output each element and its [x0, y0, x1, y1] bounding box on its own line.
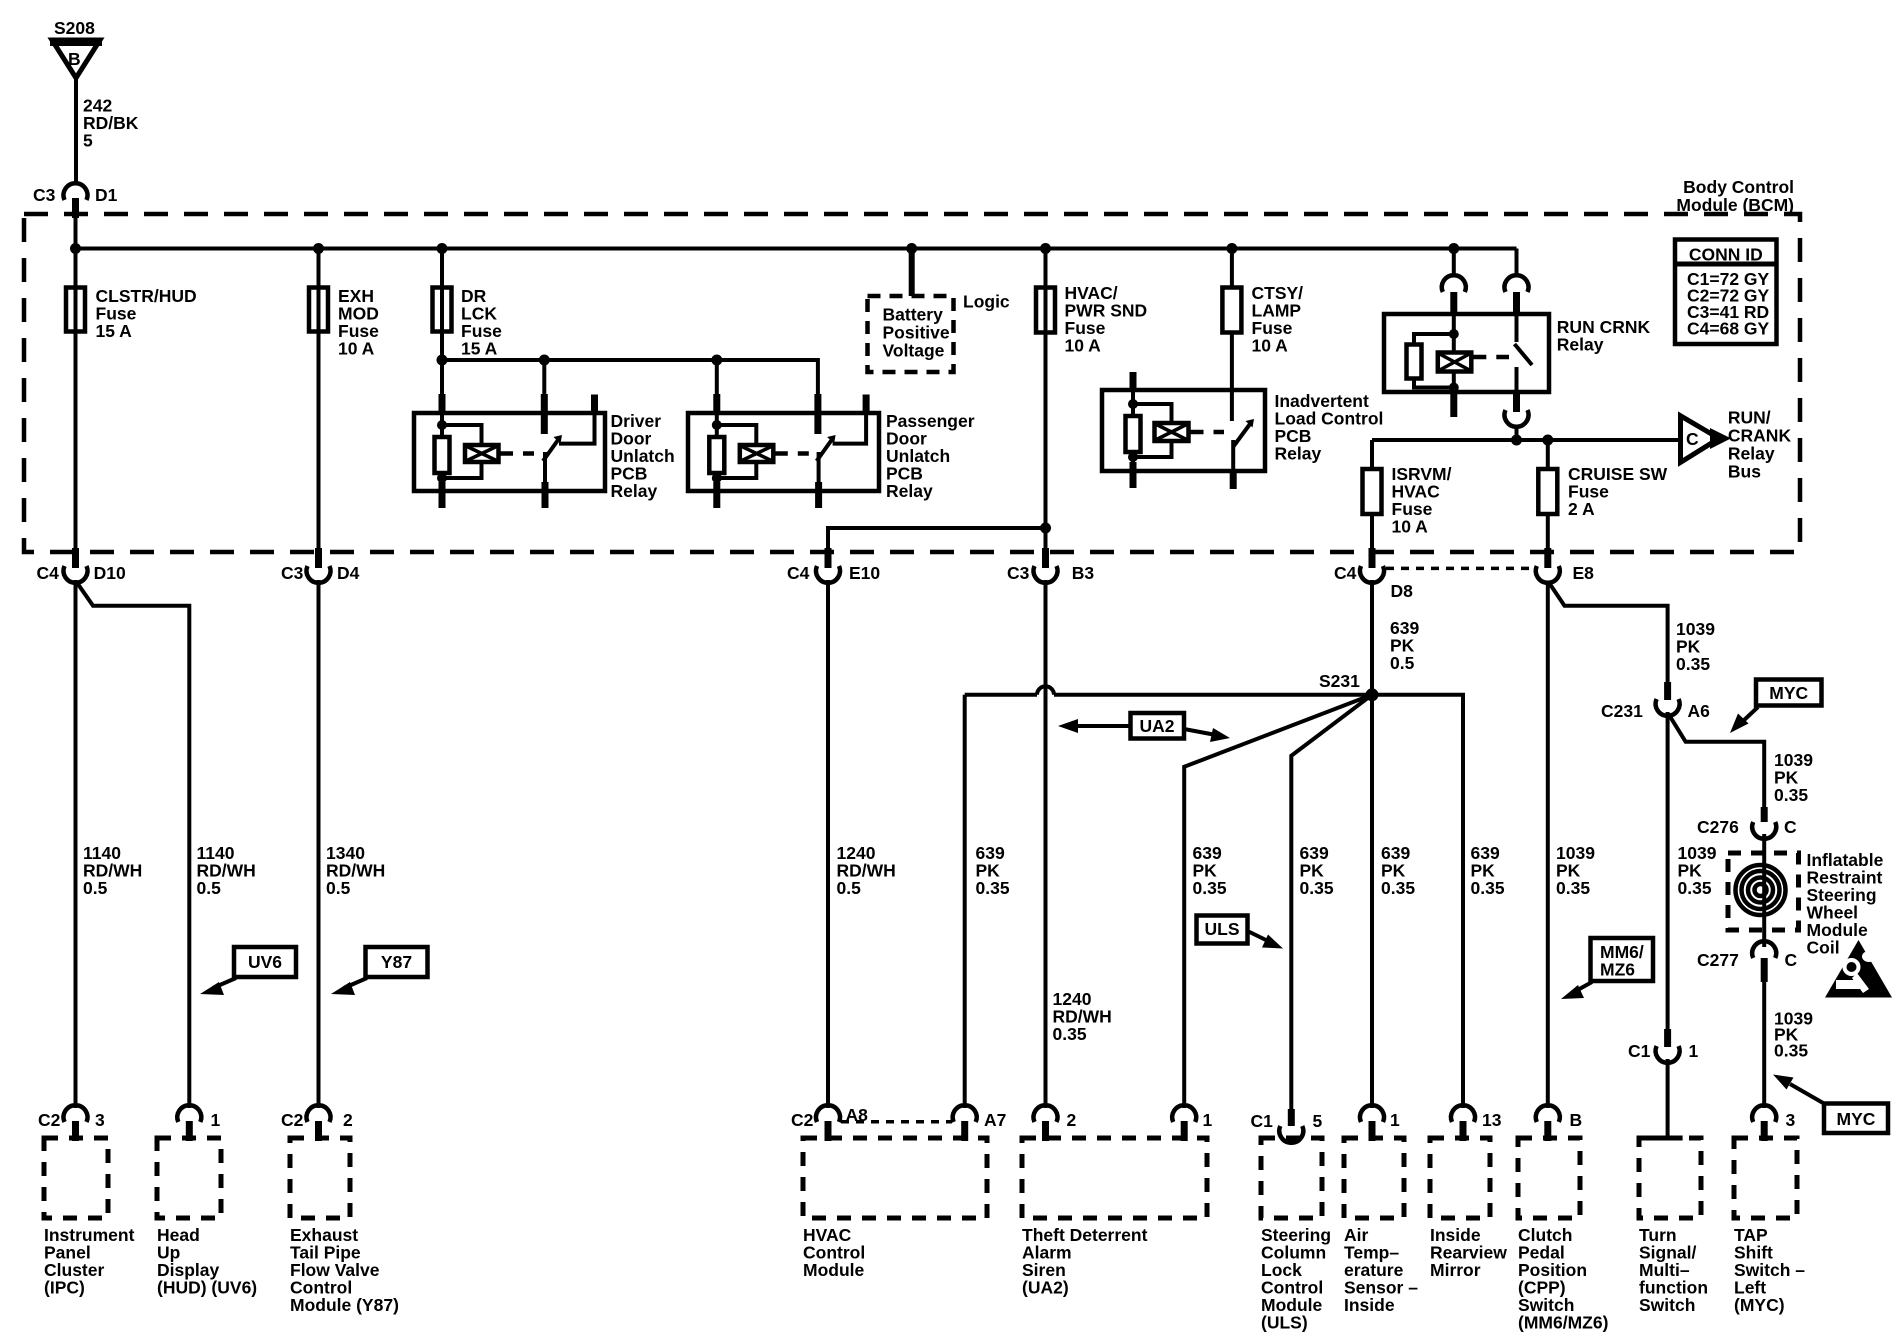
svg-text:Module (BCM): Module (BCM)	[1676, 195, 1794, 215]
bus wire (main feed)	[76, 247, 1517, 251]
wire C231 branch to C276	[1669, 714, 1765, 807]
module pin A7 (HVAC)	[953, 1105, 1007, 1141]
module pin 2 (Theft)	[1034, 1105, 1077, 1141]
module pin 1 (HUD)	[177, 1105, 220, 1141]
svg-text:MZ6: MZ6	[1600, 960, 1635, 980]
connector C1/5 (ULS)	[1251, 1109, 1323, 1143]
junction: bus at CTSY/LAMP fuse	[1226, 243, 1237, 254]
module box ULS	[1261, 1138, 1331, 1333]
svg-text:Relay: Relay	[886, 481, 933, 501]
svg-text:5: 5	[1313, 1111, 1323, 1131]
Body Control Module (BCM) dashed box	[24, 214, 1800, 552]
wire: passenger relay to E10 branch	[828, 528, 1046, 548]
connector C4/E10	[787, 548, 880, 583]
wire label 1240 RD/WH 0.35 (theft)	[1053, 989, 1112, 1044]
wire: S231 diagonal to ULS C1/5	[1291, 695, 1372, 1109]
wire labels row (columns)	[83, 843, 1717, 898]
svg-text:C3: C3	[33, 185, 56, 205]
junction: feed line at driver relay coil	[437, 355, 448, 366]
wire E8 to CPP pin B (1039 PK 0.35)	[1546, 581, 1550, 1108]
splice S208 symbol	[50, 18, 102, 78]
wire bus to DR LCK fuse	[440, 249, 444, 361]
connector C4/D8	[1334, 548, 1413, 601]
wire: S231 straight down to Air Temp pin 1	[1370, 695, 1374, 1108]
relay: Inadvertent Load Control PCB Relay	[1102, 333, 1383, 489]
svg-text:C2: C2	[791, 1110, 814, 1130]
svg-text:Battery: Battery	[883, 305, 944, 325]
svg-text:C276: C276	[1697, 817, 1739, 837]
svg-text:D4: D4	[337, 563, 360, 583]
module pin C2/A8 (HVAC)	[791, 1105, 868, 1141]
junction: bus at HVAC/PWR SND fuse	[1040, 243, 1051, 254]
svg-text:A6: A6	[1688, 701, 1711, 721]
connector C3/B3	[1007, 548, 1094, 583]
svg-text:RUN/: RUN/	[1728, 407, 1771, 427]
svg-text:15 A: 15 A	[96, 321, 133, 341]
connector C277/C	[1697, 941, 1798, 982]
wire: run/crank relay bus line y=440	[1372, 438, 1681, 442]
svg-text:0.35: 0.35	[1300, 878, 1334, 898]
CONN ID table	[1675, 240, 1777, 345]
module box Y87	[290, 1138, 399, 1315]
svg-text:MYC: MYC	[1769, 683, 1808, 703]
fuse DR LCK 15A	[433, 286, 503, 359]
svg-text:B: B	[68, 49, 81, 69]
svg-text:Voltage: Voltage	[883, 341, 945, 361]
label box MM6/MZ6 with arrow	[1561, 938, 1653, 999]
svg-text:0.5: 0.5	[326, 878, 351, 898]
svg-text:(MYC): (MYC)	[1734, 1295, 1785, 1315]
wire label 1039 PK 0.35 (E8 branch)	[1676, 619, 1715, 674]
wire label 242 RD/BK 5	[83, 96, 139, 151]
svg-text:Relay: Relay	[1275, 444, 1322, 464]
wire E8 branch to C231	[1549, 582, 1668, 684]
svg-text:CONN ID: CONN ID	[1689, 245, 1763, 265]
label box Y87 with arrow	[331, 947, 428, 995]
fuse EXH MOD 10A	[309, 286, 379, 359]
wire and fuse ISRVM/HVAC 10A	[1363, 440, 1452, 548]
svg-text:(ULS): (ULS)	[1261, 1313, 1308, 1333]
junction: bus at battery positive voltage tap	[906, 243, 917, 254]
svg-text:0.35: 0.35	[1774, 1041, 1808, 1061]
svg-text:D8: D8	[1391, 581, 1414, 601]
svg-text:Relay: Relay	[1557, 335, 1604, 355]
junction: bus at EXH MOD fuse	[313, 243, 324, 254]
module pin 1 (Theft)	[1172, 1105, 1212, 1141]
svg-text:Module (Y87): Module (Y87)	[290, 1295, 399, 1315]
fuse CLSTR/HUD 15A	[66, 286, 197, 341]
svg-text:B3: B3	[1072, 563, 1095, 583]
svg-text:0.35: 0.35	[1774, 785, 1808, 805]
svg-text:C: C	[1785, 950, 1798, 970]
svg-text:S208: S208	[54, 18, 95, 38]
svg-text:1: 1	[1689, 1041, 1699, 1061]
connector C4/D10	[37, 548, 126, 583]
wire label 1039 PK 0.35 (MYC branch)	[1774, 750, 1813, 805]
svg-text:3: 3	[1786, 1110, 1796, 1130]
svg-text:(IPC): (IPC)	[44, 1278, 85, 1298]
wire bus to CLSTR/HUD fuse and down to D10	[74, 249, 78, 549]
svg-text:C277: C277	[1697, 950, 1739, 970]
wire C277 to TAP pin 3 (1039 PK 0.35)	[1762, 982, 1766, 1108]
module pin 13 (Mirror)	[1451, 1105, 1502, 1141]
svg-text:0.5: 0.5	[1390, 653, 1415, 673]
relay: Passenger Door Unlatch PCB Relay	[688, 360, 975, 508]
svg-text:1: 1	[1390, 1110, 1400, 1130]
wire: S231 diagonal to Theft pin 1	[1184, 695, 1372, 1108]
module box HUD	[157, 1138, 257, 1298]
svg-text:0.35: 0.35	[1676, 654, 1710, 674]
wire D4 to Y87	[317, 580, 321, 1108]
SIR warning triangle	[1825, 940, 1892, 998]
Battery Positive Voltage dashed box	[868, 296, 954, 372]
module box Air Temperature Sensor	[1344, 1138, 1418, 1315]
wire: UA2 splice horizontal with hop over B3 wire	[965, 686, 1463, 1108]
connector C3/D1	[33, 183, 118, 218]
svg-text:1: 1	[1203, 1110, 1213, 1130]
module box Inside Rearview Mirror	[1430, 1138, 1507, 1280]
svg-text:MYC: MYC	[1837, 1109, 1876, 1129]
module box Theft Deterrent Alarm Siren	[1022, 1138, 1207, 1298]
wire 242 RD/BK from S208 to BCM C3/D1	[74, 75, 78, 185]
svg-text:1: 1	[211, 1110, 221, 1130]
svg-text:(UA2): (UA2)	[1022, 1278, 1069, 1298]
junction: feed line at driver relay switch	[539, 355, 550, 366]
svg-text:Switch: Switch	[1639, 1295, 1695, 1315]
wire: branch down to HVAC A7	[963, 695, 967, 1108]
wire: relay feed line y=360	[442, 360, 818, 396]
svg-text:Positive: Positive	[883, 323, 950, 343]
junction: relay bus at CRUISE SW fuse	[1542, 435, 1553, 446]
dashed link D8-E8	[1386, 567, 1533, 571]
relay: Driver Door Unlatch PCB Relay	[414, 360, 675, 508]
module pin 1 (Air Temp)	[1360, 1105, 1400, 1141]
label box ULS with arrow	[1197, 916, 1284, 949]
svg-text:2 A: 2 A	[1568, 499, 1595, 519]
svg-text:Body Control: Body Control	[1683, 177, 1794, 197]
svg-text:0.35: 0.35	[976, 878, 1010, 898]
svg-text:CRANK: CRANK	[1728, 425, 1792, 445]
svg-text:A7: A7	[984, 1110, 1006, 1130]
fuse CTSY/LAMP 10A	[1222, 283, 1303, 356]
svg-text:Module: Module	[803, 1260, 865, 1280]
label box UA2 with arrows	[1058, 713, 1230, 742]
svg-text:10 A: 10 A	[1065, 336, 1102, 356]
svg-text:0.35: 0.35	[1471, 878, 1505, 898]
svg-text:C3: C3	[1007, 563, 1030, 583]
svg-text:0.35: 0.35	[1053, 1024, 1087, 1044]
junction: bus at CLSTR/HUD fuse	[70, 243, 81, 254]
wire B3 to Theft pin 2	[1044, 580, 1048, 1108]
module pin 3 (TAP)	[1752, 1105, 1795, 1141]
svg-text:3: 3	[95, 1110, 105, 1130]
svg-text:C: C	[1784, 817, 1797, 837]
svg-text:15 A: 15 A	[461, 339, 498, 359]
svg-text:2: 2	[343, 1110, 353, 1130]
svg-text:C: C	[1686, 429, 1699, 449]
wire bus to EXH MOD fuse and down to D4	[317, 249, 321, 549]
wire D10 to IPC	[74, 580, 78, 1108]
svg-text:C4: C4	[787, 563, 810, 583]
svg-text:D1: D1	[95, 185, 118, 205]
svg-text:10 A: 10 A	[338, 339, 375, 359]
junction: bus at RUN CRNK relay coil	[1448, 243, 1459, 254]
svg-text:C1: C1	[1251, 1111, 1274, 1131]
module box HVAC Control Module	[803, 1138, 987, 1280]
module box Turn Signal / Multifunction Switch	[1639, 1138, 1708, 1315]
svg-text:Y87: Y87	[381, 952, 412, 972]
module box CPP Switch	[1518, 1138, 1608, 1333]
fuse HVAC/PWR SND 10A	[1036, 283, 1147, 356]
svg-text:10 A: 10 A	[1392, 517, 1429, 537]
svg-text:C2: C2	[281, 1110, 304, 1130]
connector C276/C	[1697, 807, 1797, 839]
module pin B (CPP)	[1536, 1105, 1582, 1141]
wire: battery positive voltage feed	[909, 249, 915, 297]
module box IPC	[44, 1138, 135, 1298]
relay: RUN CRNK Relay	[1384, 249, 1650, 441]
svg-text:Mirror: Mirror	[1430, 1260, 1481, 1280]
connector C3/D4	[281, 548, 360, 583]
svg-text:C3: C3	[281, 563, 304, 583]
svg-text:0.5: 0.5	[197, 878, 222, 898]
svg-text:C231: C231	[1601, 701, 1643, 721]
svg-text:0.35: 0.35	[1381, 878, 1415, 898]
wire: C3/D1 into BCM	[74, 216, 78, 250]
svg-text:C2: C2	[38, 1110, 61, 1130]
label box UV6 with arrow	[200, 947, 296, 995]
svg-text:C4: C4	[1334, 563, 1357, 583]
svg-text:C4: C4	[37, 563, 60, 583]
svg-text:Inside: Inside	[1344, 1295, 1395, 1315]
svg-text:C4=68 GY: C4=68 GY	[1687, 319, 1770, 339]
wire D8 to S231 (639 PK 0.5)	[1370, 580, 1374, 695]
svg-text:10 A: 10 A	[1252, 336, 1289, 356]
svg-text:D10: D10	[94, 563, 126, 583]
svg-text:E8: E8	[1573, 563, 1595, 583]
wire and fuse CRUISE SW 2A	[1538, 440, 1667, 548]
svg-text:Bus: Bus	[1728, 462, 1761, 482]
svg-text:E10: E10	[849, 563, 880, 583]
buffer symbol C (RUN/CRANK Relay Bus)	[1681, 407, 1792, 481]
svg-text:0.5: 0.5	[837, 878, 862, 898]
junction: E10 branch at HVAC fuse wire	[1040, 523, 1051, 534]
svg-text:0.35: 0.35	[1678, 878, 1712, 898]
node S231	[1319, 671, 1379, 701]
BCM label	[1676, 177, 1794, 215]
svg-text:0.35: 0.35	[1556, 878, 1590, 898]
svg-text:Relay: Relay	[611, 481, 658, 501]
junction: bus at DR LCK fuse	[437, 243, 448, 254]
svg-text:C1: C1	[1628, 1041, 1651, 1061]
svg-text:0.5: 0.5	[83, 878, 108, 898]
svg-text:B: B	[1570, 1110, 1583, 1130]
connector E8	[1536, 548, 1594, 583]
svg-text:13: 13	[1482, 1110, 1502, 1130]
junction: feed line at passenger relay coil	[711, 355, 722, 366]
module pin C2/2 (Y87)	[281, 1105, 353, 1141]
svg-text:(MM6/MZ6): (MM6/MZ6)	[1518, 1313, 1608, 1333]
wire E10 to HVAC module A8	[826, 580, 830, 1108]
label box MYC (upper) with arrow	[1730, 680, 1822, 734]
svg-text:5: 5	[83, 131, 93, 151]
svg-text:0.35: 0.35	[1193, 878, 1227, 898]
connector C1/1 (Turn Signal)	[1628, 1029, 1699, 1063]
label box MYC (lower) with arrow	[1773, 1075, 1888, 1134]
wire D10 branch to HUD	[77, 582, 190, 1108]
svg-text:(HUD) (UV6): (HUD) (UV6)	[157, 1278, 257, 1298]
Inflatable Restraint Steering Wheel Module Coil	[1728, 834, 1884, 958]
wire bus to CTSY/LAMP fuse	[1230, 249, 1234, 288]
connector C231/A6	[1601, 682, 1710, 721]
module pin C2/3 (IPC)	[38, 1105, 105, 1141]
module box TAP Shift Switch Left	[1734, 1138, 1805, 1315]
svg-text:Relay: Relay	[1728, 444, 1775, 464]
svg-text:ULS: ULS	[1205, 919, 1240, 939]
svg-text:S231: S231	[1319, 671, 1360, 691]
svg-text:Logic: Logic	[963, 292, 1010, 312]
wire bus to HVAC/PWR SND fuse down to B3	[1044, 249, 1048, 549]
wire C231 down to Turn Signal C1	[1666, 712, 1670, 1029]
dashed link A8-A7	[841, 1120, 952, 1124]
junction: relay bus at RUN CRNK switch	[1511, 435, 1522, 446]
svg-text:UA2: UA2	[1139, 716, 1174, 736]
wire C1 to Turn Signal module	[1666, 1059, 1670, 1136]
svg-text:2: 2	[1067, 1110, 1077, 1130]
svg-text:Coil: Coil	[1807, 938, 1840, 958]
svg-text:UV6: UV6	[248, 952, 282, 972]
